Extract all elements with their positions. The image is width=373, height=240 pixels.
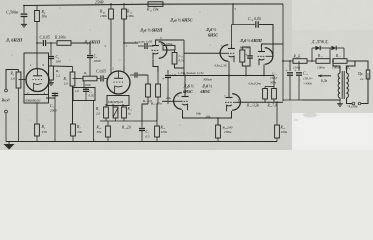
svg-text:6Н5С: 6Н5С xyxy=(208,33,218,38)
capacitor C10 0.05 xyxy=(255,21,257,27)
diode D1 D7Zh xyxy=(312,47,315,49)
resistor R17a xyxy=(174,50,176,52)
svg-text:10к: 10к xyxy=(206,114,211,118)
svg-text:R₂₃: R₂₃ xyxy=(280,126,286,130)
svg-text:1а5б: 1а5б xyxy=(146,40,153,44)
fuse Pr1 1A xyxy=(355,61,368,70)
resistor R17 body xyxy=(156,84,161,97)
wire L4a anode to rail xyxy=(231,25,233,45)
svg-text:10к: 10к xyxy=(77,130,83,134)
svg-text:R₂₀240: R₂₀240 xyxy=(222,126,233,130)
resistor R15 100k horizontal xyxy=(163,45,175,50)
wire drop to R20 xyxy=(217,118,219,125)
wire caps bottom xyxy=(283,99,302,101)
resistor R16 30k xyxy=(107,121,109,126)
svg-text:300юн: 300юн xyxy=(203,78,212,82)
svg-text:2000: 2000 xyxy=(50,109,57,113)
svg-text:30к: 30к xyxy=(97,130,102,134)
capacitor C12 electrolytic xyxy=(298,61,300,71)
svg-text:Л₁ 6Н2П: Л₁ 6Н2П xyxy=(5,38,23,43)
svg-text:R₉: R₉ xyxy=(95,107,100,111)
resistor Rk2 output xyxy=(272,89,277,100)
svg-text:+: + xyxy=(295,69,297,73)
svg-text:Л₅б ½: Л₅б ½ xyxy=(201,84,212,89)
wires to bottom mid xyxy=(147,97,149,104)
svg-text:Л₃а ½ 6Н2П: Л₃а ½ 6Н2П xyxy=(139,28,163,33)
svg-text:1а: 1а xyxy=(360,77,364,81)
resistor R6 1.0 xyxy=(72,67,74,73)
triode L3a xyxy=(159,42,167,58)
resistor R13 100k xyxy=(123,4,125,9)
svg-text:6Н5С: 6Н5С xyxy=(201,89,211,94)
wire B+ row y61 xyxy=(283,60,293,62)
svg-text:R₁₈: R₁₈ xyxy=(317,54,323,58)
wire row under V2 boxes xyxy=(105,118,107,121)
svg-text:150м: 150м xyxy=(224,130,232,134)
wire V2 right stub xyxy=(130,74,134,76)
svg-text:R₁₃: R₁₃ xyxy=(126,10,133,14)
wire to transformer top xyxy=(347,60,355,62)
wire R2 anode V1 xyxy=(36,22,38,70)
svg-text:60к: 60к xyxy=(196,111,201,115)
svg-text:100к: 100к xyxy=(161,130,168,134)
capacitor C7 0.05 xyxy=(100,76,102,82)
svg-text:6Н5С: 6Н5С xyxy=(183,89,193,94)
wire lower row y101 xyxy=(238,101,284,103)
svg-text:R₁: R₁ xyxy=(10,72,15,76)
wire L5a grid xyxy=(162,100,175,102)
capacitor C5 2000 xyxy=(87,55,93,57)
svg-text:Вход: Вход xyxy=(2,98,10,103)
wire primary bottom xyxy=(347,98,353,104)
svg-text:R₇: R₇ xyxy=(76,125,81,129)
svg-text:R₁₂ 10к: R₁₂ 10к xyxy=(146,8,159,12)
riser diode right xyxy=(343,48,345,59)
wire joint1 xyxy=(307,60,316,62)
wire L5 cathode U link xyxy=(183,110,232,118)
ground under R4 xyxy=(50,80,52,83)
svg-text:С₁500м: С₁500м xyxy=(6,11,19,15)
wire C10 row xyxy=(232,24,255,26)
svg-text:1к: 1к xyxy=(128,112,132,116)
wire R5 to C5 node xyxy=(71,43,90,55)
resistor R2 10k xyxy=(36,5,38,11)
wire secondary top xyxy=(333,61,340,73)
wire L4b cathode to output row xyxy=(263,65,265,76)
wire B+ riser right xyxy=(282,4,284,101)
terminal mains b xyxy=(358,102,361,105)
svg-text:~Сеть: ~Сеть xyxy=(347,105,358,109)
wire ground bottom rail xyxy=(6,141,277,143)
svg-text:Л₄б ½: Л₄б ½ xyxy=(205,27,216,32)
resistor R25 horizontal xyxy=(293,59,307,64)
resistor R5 100k xyxy=(57,41,71,46)
riser diode left xyxy=(311,48,313,61)
wire box bottom down xyxy=(93,101,95,142)
svg-text:×300в: ×300в xyxy=(303,82,312,86)
resistor Rk1 output xyxy=(263,89,268,100)
svg-text:R₁₆: R₁₆ xyxy=(96,126,103,130)
paper background xyxy=(0,0,373,150)
wire cathode link xyxy=(51,65,73,68)
capacitor C4 180 xyxy=(48,56,54,58)
wire grid stub V1 xyxy=(19,79,27,81)
tube L2 6N2P triode xyxy=(107,71,130,94)
wire L4b plate to B+ xyxy=(262,44,284,47)
smudge scan artifact xyxy=(303,113,317,118)
ground main triangle xyxy=(8,142,10,145)
svg-text:150: 150 xyxy=(42,130,48,134)
wire R10 to V2 anode xyxy=(110,19,112,75)
triode L5a xyxy=(174,93,182,109)
resistor R10 100k xyxy=(110,4,112,9)
feedback box with C6 xyxy=(83,81,85,88)
svg-text:R₁₅100к: R₁₅100к xyxy=(160,42,173,46)
svg-text:R₆: R₆ xyxy=(63,77,68,81)
svg-text:300в: 300в xyxy=(270,81,277,85)
svg-text:Л₂ 6Н1П: Л₂ 6Н1П xyxy=(83,40,101,45)
wire input to grid xyxy=(6,70,19,90)
wire R17a bottom xyxy=(175,64,185,68)
resistor R3 150 xyxy=(35,124,40,136)
resistor R18 horizontal xyxy=(316,59,330,64)
svg-text:R₁₇-25к: R₁₇-25к xyxy=(150,102,162,106)
svg-text:+: + xyxy=(286,69,288,73)
wire L5a anode lead xyxy=(184,76,186,93)
svg-text:R₅100к: R₅100к xyxy=(54,36,66,40)
wires output resistors down xyxy=(264,99,266,102)
svg-text:100к: 100к xyxy=(127,14,134,18)
wire L4a grid xyxy=(184,52,221,54)
wire V2 cathode leads xyxy=(112,104,114,107)
svg-text:R₂: R₂ xyxy=(41,10,46,14)
svg-text:100к: 100к xyxy=(281,130,288,134)
svg-text:Л₃б ½ 6Н2П: Л₃б ½ 6Н2П xyxy=(239,38,263,43)
wire L5b anode lead xyxy=(228,76,230,94)
ground transformer xyxy=(339,101,341,104)
screen box under V2 xyxy=(107,96,129,106)
resistor R18b 100k xyxy=(156,121,158,126)
resistor R12 10k in rail xyxy=(148,2,163,7)
capacitor C2 0.05 xyxy=(42,40,44,46)
wire divider drop x184 xyxy=(183,40,185,76)
riser diode mid xyxy=(329,48,331,59)
svg-text:С₁₂: С₁₂ xyxy=(303,72,309,76)
capacitor C10a electrolytic 2.0 xyxy=(167,70,169,75)
resistor R20 240 xyxy=(216,125,221,138)
terminal input jack xyxy=(5,89,8,92)
triode L4b mirrored xyxy=(265,48,273,64)
capacitor cathode electrolytic xyxy=(247,55,253,57)
svg-text:R₂₅Б: R₂₅Б xyxy=(293,55,302,59)
wire box to C5b xyxy=(46,97,55,99)
svg-text:20в: 20в xyxy=(166,96,171,100)
svg-text:R₃: R₃ xyxy=(41,125,46,129)
svg-text:10к: 10к xyxy=(42,15,48,19)
wire R6 bottom xyxy=(72,86,75,124)
svg-text:R₁₀: R₁₀ xyxy=(99,10,106,14)
resistor R4 1.2 xyxy=(49,66,54,80)
capacitor C8 electrolytic xyxy=(113,107,118,118)
wire secondary bottom to gnd xyxy=(302,99,340,101)
wire primary top xyxy=(347,61,356,73)
tube L1 6N2P triode xyxy=(26,69,49,92)
capacitor C5b 2000 branch xyxy=(54,93,56,97)
svg-text:С₁₃: С₁₃ xyxy=(179,54,184,58)
capacitor C9a 0.05 grid xyxy=(138,45,144,47)
wire fuse bottom xyxy=(361,79,368,104)
svg-text:Д₁ Д7Ж Д₂: Д₁ Д7Ж Д₂ xyxy=(311,40,329,44)
capacitor C6 0.02 in box xyxy=(85,88,87,90)
transformer Tr1 xyxy=(338,73,340,78)
wire lower anode row xyxy=(168,75,274,77)
svg-text:Л₄а ½ 6Н5С: Л₄а ½ 6Н5С xyxy=(169,18,193,23)
resistor R16a xyxy=(122,107,127,118)
wire L4a cathode to output row xyxy=(228,62,230,76)
svg-text:2000: 2000 xyxy=(94,59,101,63)
capacitor C1 500mkF xyxy=(23,6,25,14)
svg-text:R₁₈: R₁₈ xyxy=(160,126,167,130)
terminal mains a xyxy=(352,102,355,105)
svg-text:180: 180 xyxy=(56,60,62,64)
svg-text:6Ж(6Н)2П: 6Ж(6Н)2П xyxy=(108,100,124,104)
arrow heater xyxy=(318,75,331,77)
triode L5b mirrored xyxy=(232,94,240,110)
shield box V1 xyxy=(24,53,49,103)
wire splitter cathode resistors xyxy=(153,60,158,73)
wire +250V top rail xyxy=(24,4,283,6)
svg-text:100к: 100к xyxy=(100,14,107,18)
wire anode row y43 xyxy=(37,42,42,44)
wire C10 to x273 xyxy=(259,25,273,57)
wire rail drop x233 xyxy=(232,4,234,25)
svg-text:Пр₁: Пр₁ xyxy=(357,72,364,76)
resistor R23 100k xyxy=(276,102,278,125)
ground under C1 xyxy=(23,22,25,25)
svg-text:100к: 100к xyxy=(85,83,92,87)
svg-text:R₈: R₈ xyxy=(83,71,87,75)
node rail-C1 xyxy=(23,5,25,7)
diode D2 xyxy=(327,47,331,49)
capacitor C11 electrolytic xyxy=(289,61,291,71)
resistor R14 body xyxy=(146,84,151,97)
resistor R17h horizontal xyxy=(333,59,347,64)
terminal input ground xyxy=(5,110,8,113)
wire L3a anode up xyxy=(156,40,185,42)
svg-text:R₁₇: R₁₇ xyxy=(335,54,341,58)
svg-text:Л₄б ½: Л₄б ½ xyxy=(183,84,194,89)
wire C4 branch xyxy=(50,43,52,56)
resistor R1 1.0 xyxy=(18,70,20,73)
wire R1 to rail bottom xyxy=(18,88,20,142)
wire R13 into V2 anode xyxy=(123,19,125,43)
wire R13 down xyxy=(124,19,138,43)
resistor R9 2.0 xyxy=(104,107,109,118)
scan specks xyxy=(60,8,61,9)
wire C5 down xyxy=(89,58,91,77)
svg-text:250В: 250В xyxy=(95,0,104,5)
resistor R7 10k xyxy=(71,124,76,136)
svg-text:С₁₁: С₁₁ xyxy=(272,72,277,76)
wire V1 cathode to R3 xyxy=(36,103,38,124)
capacitor C9 0.5 xyxy=(141,121,143,128)
svg-text:R₁₆: R₁₆ xyxy=(127,107,133,111)
svg-text:6Ж(6Н)2П: 6Ж(6Н)2П xyxy=(26,99,42,103)
resistor R21a between tubes xyxy=(240,50,245,62)
resistor R8 100k horizontal xyxy=(73,78,84,80)
wire cathode net to output row xyxy=(245,66,247,76)
triode L4a xyxy=(220,45,228,61)
paper noise texture xyxy=(0,0,373,155)
svg-text:100м: 100м xyxy=(317,66,325,70)
